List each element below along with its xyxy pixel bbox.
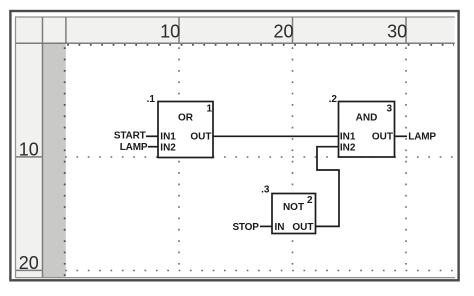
svg-text:NOT: NOT xyxy=(283,202,304,213)
wire NOT.OUT to AND.IN2 xyxy=(316,147,340,227)
selection margin gray strip xyxy=(43,43,66,277)
dotted grid line y=10 xyxy=(65,156,454,158)
svg-text:2: 2 xyxy=(307,195,313,206)
editor widget border bottom xyxy=(16,277,456,279)
svg-text:OUT: OUT xyxy=(372,131,393,142)
left tick marks xyxy=(64,47,66,277)
ruler division line 30 xyxy=(405,17,407,43)
svg-text:OUT: OUT xyxy=(292,222,313,233)
block NOT .3 xyxy=(272,194,316,234)
wire OR.OUT to AND.IN1 xyxy=(213,135,339,137)
dotted grid line x=20 xyxy=(292,47,294,271)
block AND .2 xyxy=(339,102,395,158)
svg-text:IN2: IN2 xyxy=(340,142,356,153)
dotted grid line x=30 xyxy=(405,47,407,271)
top tick marks xyxy=(67,44,454,46)
svg-text:.1: .1 xyxy=(147,94,156,105)
wire START to OR.IN1 xyxy=(146,135,158,137)
svg-text:AND: AND xyxy=(356,113,378,124)
ruler division line 10 xyxy=(178,17,180,43)
ruler bottom border xyxy=(16,42,455,44)
svg-text:.2: .2 xyxy=(329,94,338,105)
row header column divider xyxy=(42,17,44,278)
svg-text:10: 10 xyxy=(160,22,180,42)
dotted grid line x=10 xyxy=(178,47,180,271)
svg-text:IN2: IN2 xyxy=(160,142,176,153)
svg-text:IN1: IN1 xyxy=(340,131,356,142)
block OR .1 xyxy=(158,102,213,158)
svg-text:START: START xyxy=(114,131,146,142)
svg-text:IN1: IN1 xyxy=(160,131,176,142)
editor widget border top xyxy=(15,16,455,18)
svg-text:30: 30 xyxy=(387,22,407,42)
row divider y=10 xyxy=(16,156,43,158)
ruler cell divider at margin edge xyxy=(65,17,67,43)
wire AND.OUT to LAMP xyxy=(395,135,408,137)
svg-text:10: 10 xyxy=(19,140,39,160)
wire STOP to NOT.IN xyxy=(260,225,272,227)
ruler header row background xyxy=(16,18,455,44)
row header left column background xyxy=(16,18,42,278)
svg-text:OUT: OUT xyxy=(190,131,211,142)
dotted grid line y=20 xyxy=(65,270,454,272)
svg-text:3: 3 xyxy=(386,104,392,115)
svg-text:LAMP: LAMP xyxy=(408,132,436,143)
svg-text:STOP: STOP xyxy=(232,222,259,233)
svg-text:20: 20 xyxy=(273,22,293,42)
ruler division line 20 xyxy=(292,17,294,43)
svg-text:IN: IN xyxy=(275,222,285,233)
editor widget border left xyxy=(15,17,17,278)
svg-text:1: 1 xyxy=(206,104,212,115)
wire LAMP to OR.IN2 xyxy=(148,146,158,148)
row divider y=20 xyxy=(16,269,43,271)
svg-text:.3: .3 xyxy=(261,185,270,196)
svg-text:20: 20 xyxy=(19,253,39,273)
svg-text:LAMP: LAMP xyxy=(120,142,148,153)
svg-text:OR: OR xyxy=(178,113,194,124)
